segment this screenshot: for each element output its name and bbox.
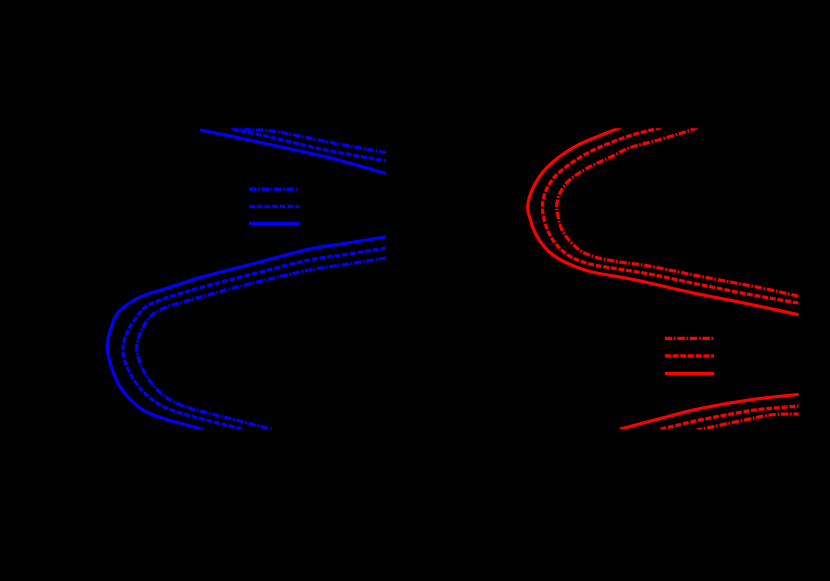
legend red-solid bbox=[665, 372, 714, 375]
legend red-dashed bbox=[665, 354, 714, 357]
curve blue-top-dashed bbox=[233, 129, 386, 161]
curve red-C-dashed bbox=[542, 128, 799, 304]
curve blue-C-dashdot bbox=[137, 258, 386, 430]
curve blue-top-dashdot bbox=[231, 128, 386, 152]
curve blue-C-solid bbox=[107, 237, 386, 430]
curve red-bot-dashdot bbox=[695, 414, 799, 431]
legend blue-dashdot bbox=[249, 188, 300, 191]
curve red-C-solid bbox=[528, 128, 799, 315]
legend red-dashdot bbox=[665, 337, 714, 340]
curve red-C-dashdot bbox=[557, 128, 799, 297]
legend blue-dashed bbox=[249, 205, 300, 208]
curve red-bot-solid bbox=[620, 394, 799, 429]
curve blue-top-solid bbox=[200, 130, 386, 174]
curve blue-C-dashed bbox=[123, 248, 386, 429]
curve red-bot-dashed bbox=[661, 406, 800, 429]
legend blue-solid bbox=[249, 222, 300, 225]
